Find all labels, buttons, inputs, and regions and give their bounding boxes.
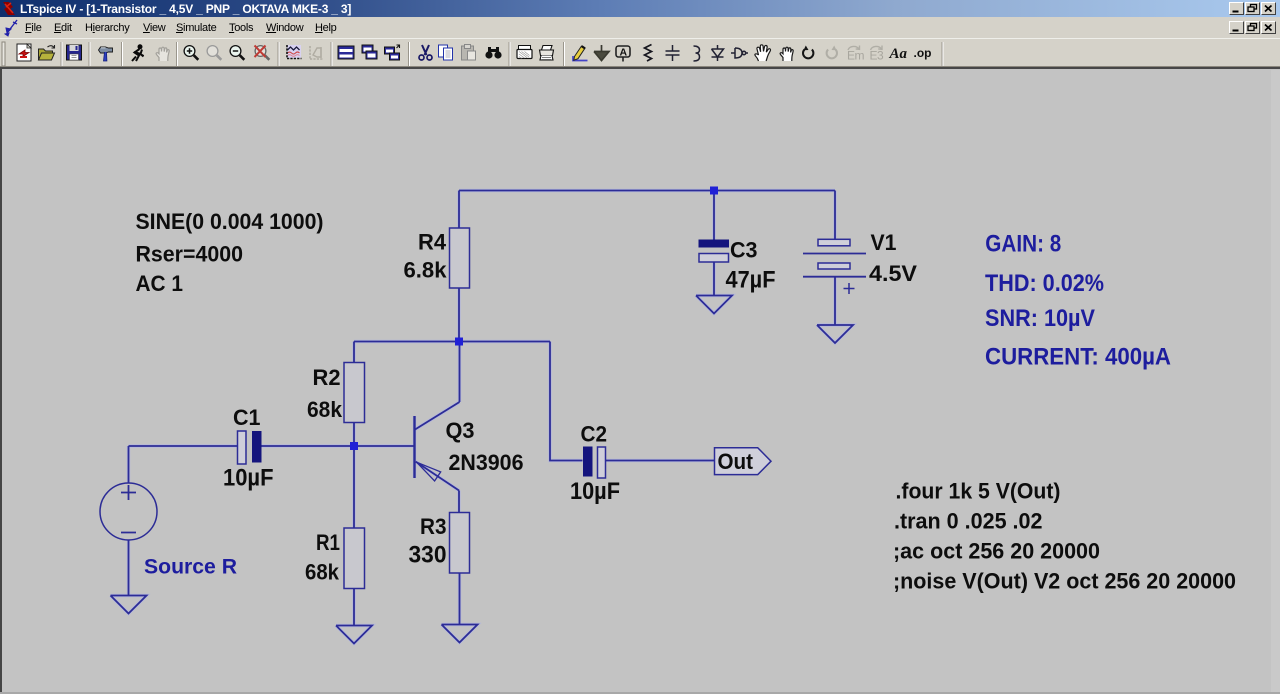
separator — [509, 42, 510, 66]
icon save — [67, 45, 82, 60]
svg-text:6.8k: 6.8k — [404, 258, 448, 283]
node junction (top rail / C3) — [710, 187, 718, 195]
wire top rail V+ — [459, 190, 835, 192]
value label AC 1 — [136, 271, 184, 296]
svg-text:C2: C2 — [581, 422, 608, 447]
svg-text:.tran 0 .025 .02: .tran 0 .025 .02 — [894, 509, 1043, 534]
icon place resistor — [645, 45, 652, 62]
value label 10uF (C2) — [570, 478, 620, 505]
wire emitter to R3 — [458, 491, 461, 625]
wire V1 stubs — [834, 191, 836, 326]
battery V1 — [803, 239, 866, 294]
svg-text:68k: 68k — [307, 397, 343, 422]
svg-text:SNR: 10µV: SNR: 10µV — [985, 305, 1095, 332]
separator — [942, 42, 943, 66]
icon mirror (grayed) — [847, 46, 865, 63]
icon place ground — [594, 45, 609, 61]
ref label C3 — [730, 238, 758, 263]
icon place capacitor — [666, 45, 680, 61]
svg-text:THD: 0.02%: THD: 0.02% — [985, 270, 1104, 297]
ref label V1 — [871, 230, 897, 255]
svg-text:Q3: Q3 — [446, 418, 475, 443]
node junction (collector node) — [455, 338, 463, 346]
svg-text:Source R: Source R — [144, 556, 237, 579]
icon waveform — [287, 45, 302, 59]
icon undo — [803, 46, 813, 59]
resistor R4 — [450, 228, 470, 288]
voltage source V2 — [100, 483, 157, 540]
icon draw wire (pencil) — [573, 46, 588, 61]
icon zoom extents (grayed) — [207, 46, 221, 60]
icon new schematic — [17, 44, 31, 61]
icon place inductor — [694, 46, 700, 61]
separator — [564, 42, 565, 66]
comment CURRENT — [985, 343, 1171, 370]
toolbar — [0, 38, 1280, 69]
svg-text:V1: V1 — [871, 230, 897, 255]
port label Out — [718, 449, 754, 474]
icon copy — [439, 45, 453, 60]
ref label R1 — [316, 530, 340, 555]
svg-text:4.5V: 4.5V — [869, 261, 917, 286]
separator — [409, 42, 410, 66]
value label 6.8k — [404, 258, 448, 283]
ref label Q3 — [446, 418, 475, 443]
svg-text:68k: 68k — [305, 560, 340, 585]
wire C2 drop — [550, 342, 583, 461]
svg-text:.four 1k 5 V(Out): .four 1k 5 V(Out) — [896, 479, 1061, 504]
value label 330 — [409, 542, 447, 569]
window title bar — [0, 0, 1280, 17]
ref label R2 — [313, 365, 341, 390]
ref label R3 — [420, 514, 447, 539]
icon redo (grayed) — [827, 46, 837, 59]
icon paste (grayed) — [462, 45, 476, 61]
svg-text:SINE(0 0.004 1000): SINE(0 0.004 1000) — [136, 209, 324, 234]
icon plot settings (grayed) — [310, 46, 323, 59]
resistor R1 — [344, 528, 365, 589]
directive ;ac — [893, 539, 1100, 564]
menu bar — [0, 17, 1280, 38]
resistor R3 — [450, 513, 470, 574]
net label Source R — [144, 556, 237, 579]
icon find — [485, 47, 501, 59]
svg-text:10µF: 10µF — [223, 465, 274, 492]
icon move (hand) — [755, 45, 771, 61]
svg-text:47µF: 47µF — [726, 267, 776, 294]
icon tile vert — [362, 45, 377, 59]
directive .four — [896, 479, 1061, 504]
ref label C2 — [581, 422, 608, 447]
value label 2N3906 — [449, 450, 524, 475]
wire source V2 stubs — [128, 446, 130, 596]
separator — [278, 42, 279, 66]
wire mid rail (collector node) — [354, 341, 550, 343]
icon open — [39, 45, 55, 60]
icon zoom out — [230, 46, 244, 60]
svg-text:R4: R4 — [418, 230, 447, 255]
capacitor C2 — [583, 447, 606, 479]
value label 10uF (C1) — [223, 465, 274, 492]
icon tile horz — [338, 46, 354, 59]
comment THD — [985, 270, 1104, 297]
separator — [177, 42, 178, 66]
icon place component — [731, 48, 748, 58]
icon zoom full (red X) — [255, 46, 270, 60]
svg-text:330: 330 — [409, 542, 447, 569]
icon pause (grayed) — [156, 47, 169, 61]
wire R2 stubs — [353, 342, 355, 447]
node junction (base node) — [350, 442, 358, 450]
icon control panel hammer — [99, 47, 113, 61]
ground (C3) — [696, 296, 732, 314]
icon print preview — [517, 46, 532, 59]
resistor R2 — [344, 363, 365, 423]
svg-text:C3: C3 — [730, 238, 758, 263]
svg-text:;noise V(Out) V2 oct 256 20 20: ;noise V(Out) V2 oct 256 20 20000 — [893, 569, 1236, 594]
icon run — [132, 45, 144, 61]
port flag Out — [715, 448, 772, 475]
wire R1 stubs — [353, 446, 355, 626]
icon rotate (grayed) — [870, 46, 885, 63]
ground (source) — [111, 596, 147, 614]
value label 4.5V — [869, 261, 917, 286]
comment GAIN — [985, 230, 1061, 257]
svg-text:CURRENT: 400µA: CURRENT: 400µA — [985, 343, 1171, 370]
svg-text:AC 1: AC 1 — [136, 271, 184, 296]
wire C3 stubs — [713, 191, 715, 296]
icon drag (fist) — [780, 47, 793, 61]
ref label C1 — [233, 405, 261, 430]
capacitor C1 — [238, 431, 262, 464]
icon zoom in — [184, 46, 198, 60]
wire base rail — [129, 445, 415, 447]
svg-text:Out: Out — [718, 449, 754, 474]
separator — [89, 42, 90, 66]
svg-text:R1: R1 — [316, 530, 340, 555]
value label Rser — [136, 242, 244, 267]
svg-text:C1: C1 — [233, 405, 261, 430]
capacitor C3 — [699, 240, 730, 263]
wire collector — [459, 342, 461, 403]
icon spice directive .op — [914, 46, 932, 60]
comment SNR — [985, 305, 1095, 332]
ref label R4 — [418, 230, 447, 255]
icon place label — [616, 46, 630, 62]
value label 47uF — [726, 267, 776, 294]
ground (R1) — [336, 626, 372, 644]
icon cascade — [385, 45, 400, 60]
svg-text:10µF: 10µF — [570, 478, 620, 505]
wire R4 stubs — [458, 191, 460, 342]
toolbar grip — [2, 42, 5, 66]
separator — [122, 42, 123, 66]
svg-text:R2: R2 — [313, 365, 341, 390]
separator — [331, 42, 332, 66]
icon place diode — [712, 45, 724, 61]
svg-text:R3: R3 — [420, 514, 447, 539]
wire C2 to Out port — [606, 460, 715, 462]
separator — [61, 42, 62, 66]
value label 68k (R1) — [305, 560, 340, 585]
icon print — [540, 46, 554, 61]
svg-text:2N3906: 2N3906 — [449, 450, 524, 475]
ground (V1) — [817, 325, 853, 343]
icon text Aa — [889, 46, 908, 62]
icon cut — [419, 45, 432, 60]
ground (R3) — [442, 625, 478, 643]
directive .tran — [894, 509, 1043, 534]
value label 68k (R2) — [307, 397, 343, 422]
svg-text:;ac oct 256 20 20000: ;ac oct 256 20 20000 — [893, 539, 1100, 564]
svg-text:Rser=4000: Rser=4000 — [136, 242, 244, 267]
svg-text:GAIN: 8: GAIN: 8 — [985, 230, 1061, 257]
directive ;noise — [893, 569, 1236, 594]
value label SINE — [136, 209, 324, 234]
transistor Q3 — [415, 402, 460, 491]
